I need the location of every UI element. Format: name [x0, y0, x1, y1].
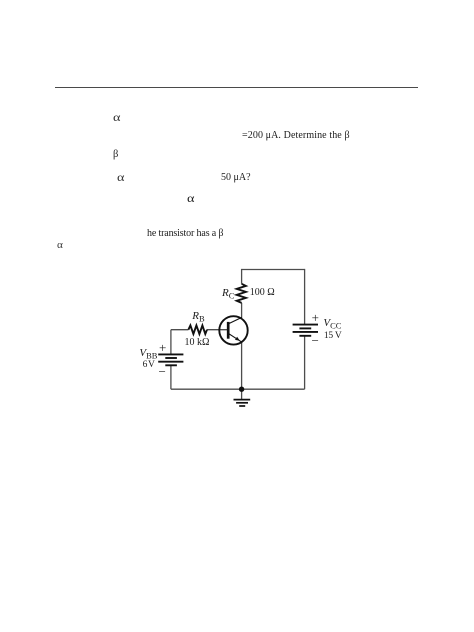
- wire emitter to bottom rail: [241, 342, 243, 389]
- node junction dot (emitter / ground / bottom rail): [239, 387, 244, 392]
- horizontal rule: [55, 87, 418, 88]
- text: he transistor has a beta: [147, 229, 223, 239]
- battery VBB plate short bottom: [165, 364, 177, 366]
- wire base right segment (RB to transistor base): [207, 329, 228, 331]
- battery VBB plate short: [165, 357, 177, 359]
- wire RC to transistor collector: [241, 303, 243, 318]
- wire right lower (VCC - to bottom rail): [304, 336, 306, 389]
- label 10 kohm: [185, 338, 210, 348]
- label 6 V: [143, 361, 154, 371]
- wire collector column above RC: [241, 269, 243, 284]
- label RB: [192, 311, 204, 322]
- wire bottom rail: [171, 388, 305, 390]
- label VCC plus sign: [312, 311, 319, 324]
- label VCC minus sign: [312, 334, 319, 347]
- text beta: [113, 150, 118, 161]
- label VBB: [139, 348, 157, 359]
- ground bar 3: [239, 405, 245, 407]
- ground bar 1: [234, 399, 251, 401]
- transistor collector diagonal: [229, 317, 242, 323]
- text alpha 1: [113, 111, 120, 123]
- text alpha 3: [187, 192, 194, 204]
- text: 50 uA?: [221, 173, 251, 183]
- transistor base bar: [227, 322, 230, 339]
- battery VBB plate long: [158, 361, 183, 363]
- wire top rail: [242, 269, 305, 271]
- battery VCC plate short bottom: [299, 335, 311, 337]
- resistor RB zigzag: [188, 325, 207, 334]
- battery VBB plate long top: [158, 353, 183, 355]
- wire base left segment (VBB column to RB): [171, 329, 189, 331]
- transistor emitter arrowhead: [235, 337, 240, 341]
- label VCC: [323, 318, 341, 329]
- label RC: [222, 288, 234, 299]
- text alpha 2: [117, 171, 124, 183]
- label VBB minus sign: [159, 365, 166, 378]
- wire left lower (VBB - to bottom rail): [170, 365, 172, 389]
- label 15 V: [324, 332, 342, 342]
- wire ground stub: [241, 389, 243, 399]
- ground bar 2: [236, 402, 248, 404]
- battery VCC plate long: [293, 331, 318, 333]
- transistor emitter diagonal: [229, 334, 242, 343]
- text line: =200 uA. Determine the beta: [242, 131, 350, 141]
- text alpha 4: [57, 241, 63, 251]
- resistor RC zigzag: [237, 284, 246, 303]
- transistor Q1 circle: [219, 316, 247, 344]
- label VBB plus sign: [159, 341, 166, 354]
- wire right upper (to VCC +): [304, 269, 306, 325]
- label 100 ohm: [250, 288, 275, 298]
- wire left upper (base row down to VBB +): [170, 330, 172, 355]
- battery VCC plate long top: [293, 324, 318, 326]
- battery VCC plate short: [299, 327, 311, 329]
